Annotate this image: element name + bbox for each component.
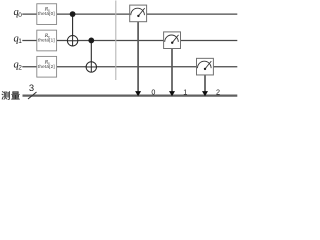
CNOT 1 target on q1 (67, 35, 78, 46)
gate RY(theta[1]) U2 on q1 (37, 30, 57, 51)
classical register label 测量 (2, 91, 20, 99)
CNOT 1 wire control q0 -> target q1 (72, 14, 74, 46)
svg-text:0: 0 (151, 87, 155, 96)
svg-text:1: 1 (18, 38, 22, 45)
svg-text:1: 1 (183, 87, 187, 96)
CNOT 2 target on q2 (86, 62, 97, 73)
measure arrow 1 (169, 91, 175, 96)
svg-text:3: 3 (29, 82, 34, 93)
svg-text:theta[2]: theta[2] (38, 64, 55, 69)
CNOT 2 wire control q1 -> target q2 (90, 40, 92, 72)
measure arrow 0 (135, 91, 141, 96)
svg-text:theta[0]: theta[0] (38, 11, 55, 16)
classical register size 3 slash (28, 92, 37, 99)
CNOT 2 control dot on q1 (88, 38, 94, 44)
classical wire (register 测量, doubled line) (23, 94, 238, 96)
wire q0 (22, 13, 237, 15)
node q2 label (13, 60, 22, 72)
measure stem q0 -> clbit 0 (137, 22, 139, 93)
node q1 label (13, 33, 22, 45)
gate RY(theta[2]) U3 on q2 (37, 56, 57, 77)
measure stem q2 -> clbit 2 (204, 75, 206, 93)
svg-text:0: 0 (18, 12, 22, 19)
wire q2 (22, 66, 237, 68)
measure stem q1 -> clbit 1 (171, 49, 173, 93)
svg-text:2: 2 (216, 87, 220, 96)
CNOT 1 control dot on q0 (70, 11, 76, 17)
svg-text:theta[1]: theta[1] (38, 38, 55, 43)
measure M2 on q2 (197, 58, 214, 75)
measure arrow 2 (202, 91, 208, 96)
svg-text:2: 2 (18, 64, 22, 71)
measure M1 on q1 (164, 32, 181, 49)
measure M0 on q0 (130, 5, 147, 22)
gate RY(theta[0]) U1 on q0 (37, 4, 57, 25)
barrier (115, 1, 117, 81)
node q0 label (13, 7, 22, 19)
wire q1 (22, 40, 237, 42)
